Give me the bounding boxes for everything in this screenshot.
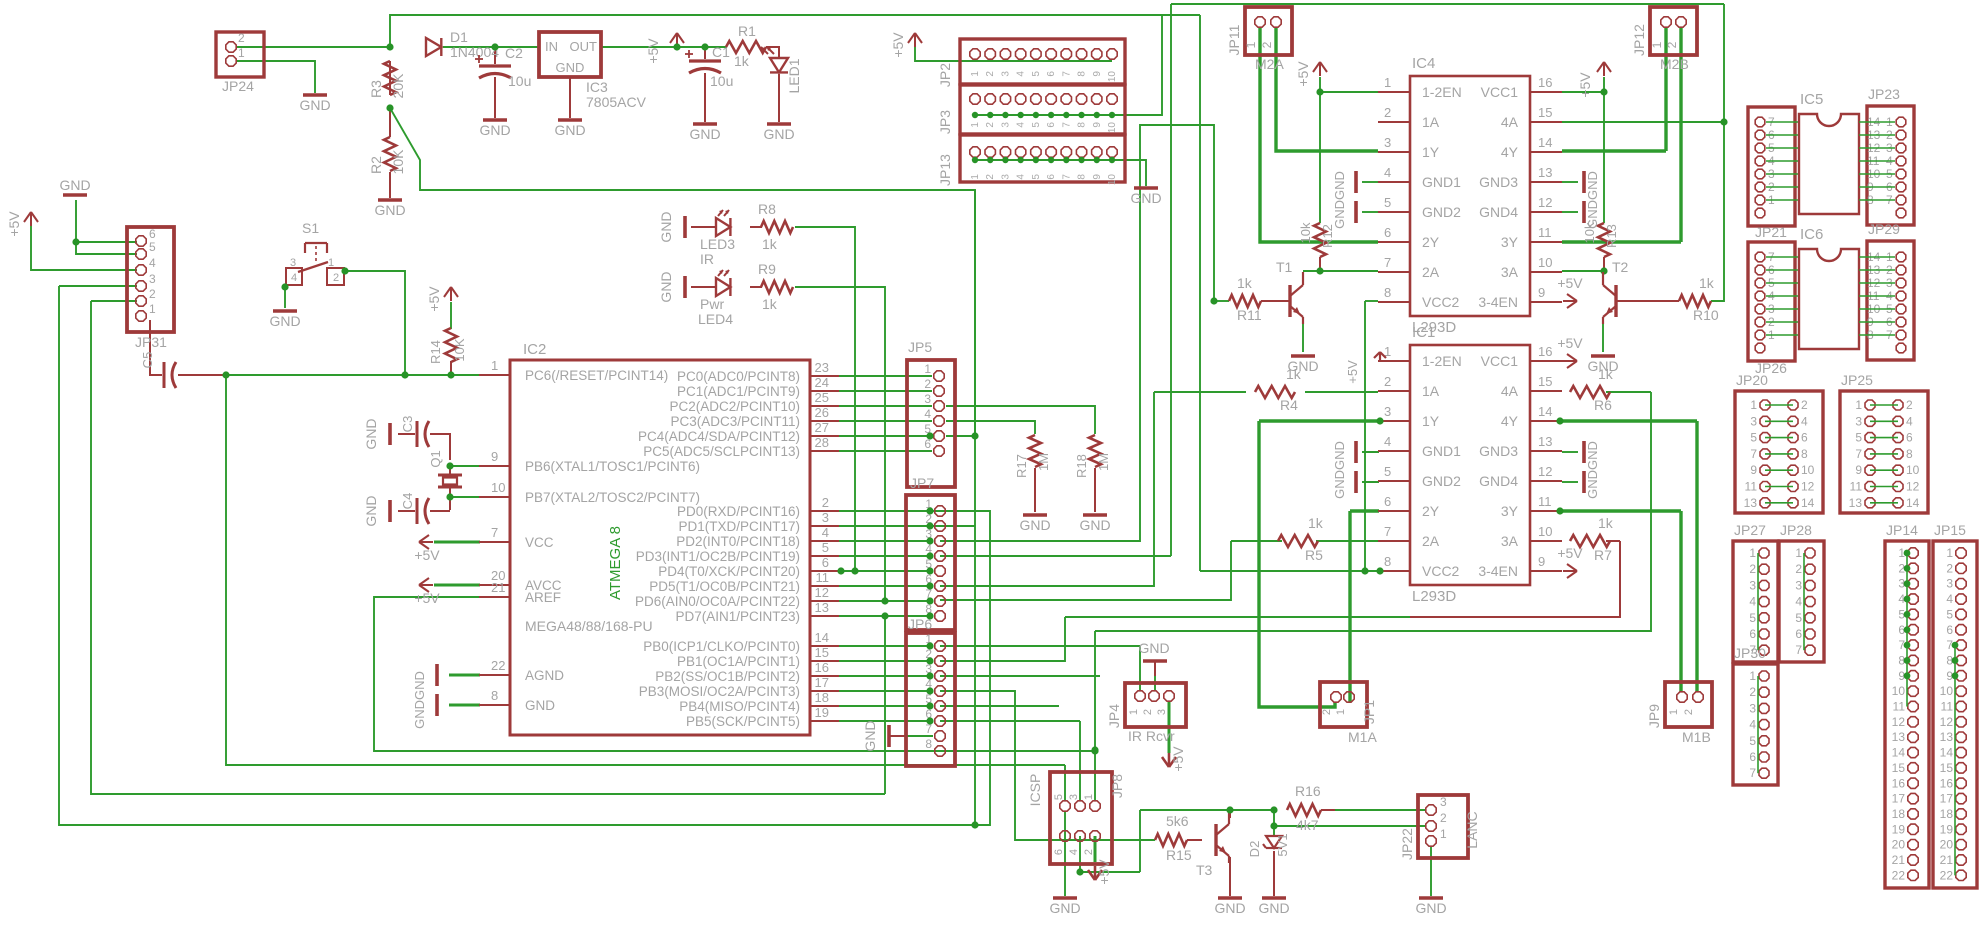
svg-text:27: 27 — [815, 420, 829, 435]
svg-text:GND: GND — [1130, 190, 1161, 206]
svg-text:6: 6 — [1384, 494, 1391, 509]
svg-text:LED4: LED4 — [698, 311, 733, 327]
svg-text:GNDGND: GNDGND — [1585, 171, 1600, 229]
svg-text:1: 1 — [1440, 827, 1447, 841]
svg-text:14: 14 — [1538, 404, 1552, 419]
svg-text:3: 3 — [924, 392, 931, 406]
svg-text:+5V: +5V — [414, 590, 440, 606]
svg-text:JP9: JP9 — [1646, 704, 1662, 728]
svg-text:R16: R16 — [1295, 783, 1321, 799]
svg-text:JP7: JP7 — [910, 475, 934, 491]
svg-text:GND: GND — [1214, 900, 1245, 916]
svg-text:3-4EN: 3-4EN — [1478, 294, 1518, 310]
svg-text:R8: R8 — [758, 201, 776, 217]
svg-text:1A: 1A — [1422, 383, 1440, 399]
svg-text:7: 7 — [1749, 766, 1756, 780]
svg-text:5: 5 — [1031, 71, 1042, 77]
svg-text:10: 10 — [1538, 255, 1552, 270]
svg-text:VCC1: VCC1 — [1481, 353, 1519, 369]
svg-text:4: 4 — [1749, 595, 1756, 609]
svg-text:R18: R18 — [1074, 454, 1089, 478]
svg-text:PB2(SS/OC1B/PCINT2): PB2(SS/OC1B/PCINT2) — [655, 669, 800, 684]
svg-text:11: 11 — [1745, 480, 1758, 494]
svg-text:JP29: JP29 — [1868, 221, 1900, 237]
svg-text:PD5(T1/OC0B/PCINT21): PD5(T1/OC0B/PCINT21) — [649, 579, 800, 594]
svg-text:JP11: JP11 — [1226, 24, 1242, 55]
svg-text:3: 3 — [1749, 701, 1756, 715]
svg-text:13: 13 — [1892, 730, 1906, 744]
svg-text:D2: D2 — [1247, 841, 1262, 858]
svg-text:T3: T3 — [1196, 862, 1213, 878]
svg-text:JP13: JP13 — [937, 154, 953, 186]
svg-text:3: 3 — [1750, 414, 1757, 428]
svg-text:3: 3 — [1795, 578, 1802, 592]
svg-text:+5V: +5V — [1345, 360, 1360, 384]
svg-text:+5V: +5V — [1170, 746, 1186, 772]
svg-text:10k: 10k — [1298, 222, 1313, 243]
svg-text:PC0(ADC0/PCINT8): PC0(ADC0/PCINT8) — [677, 369, 800, 384]
svg-text:GNDGND: GNDGND — [1332, 441, 1347, 499]
svg-text:LED1: LED1 — [786, 58, 802, 93]
svg-text:2: 2 — [1801, 398, 1808, 412]
svg-text:3Y: 3Y — [1501, 503, 1519, 519]
svg-text:R1: R1 — [738, 23, 756, 39]
svg-text:+5V: +5V — [426, 286, 442, 312]
svg-text:10: 10 — [1892, 684, 1906, 698]
svg-text:5: 5 — [1795, 611, 1802, 625]
svg-text:5: 5 — [1031, 122, 1042, 128]
svg-text:PC2(ADC2/PCINT10): PC2(ADC2/PCINT10) — [669, 399, 800, 414]
svg-text:1k: 1k — [1699, 275, 1715, 291]
svg-text:16: 16 — [1538, 75, 1552, 90]
svg-text:10u: 10u — [710, 73, 733, 89]
svg-text:GND: GND — [1079, 517, 1110, 533]
svg-text:8: 8 — [1077, 174, 1088, 180]
svg-text:JP24: JP24 — [222, 78, 254, 94]
svg-text:1: 1 — [970, 174, 981, 180]
svg-text:GND: GND — [374, 202, 405, 218]
svg-text:GND: GND — [689, 126, 720, 142]
svg-text:PD0(RXD/PCINT16): PD0(RXD/PCINT16) — [677, 504, 800, 519]
svg-text:M1B: M1B — [1682, 729, 1711, 745]
svg-text:+5V: +5V — [1557, 545, 1583, 561]
svg-text:2: 2 — [1749, 562, 1756, 576]
svg-text:R15: R15 — [1166, 847, 1192, 863]
svg-text:IC1: IC1 — [1412, 324, 1435, 341]
svg-text:15: 15 — [1892, 761, 1906, 775]
svg-text:1: 1 — [1750, 398, 1757, 412]
svg-text:2: 2 — [822, 495, 829, 510]
svg-text:R13: R13 — [1604, 224, 1619, 248]
svg-text:7: 7 — [491, 525, 498, 540]
svg-text:IC6: IC6 — [1800, 226, 1823, 243]
svg-text:14: 14 — [1892, 746, 1906, 760]
svg-text:2: 2 — [985, 174, 996, 180]
svg-text:23: 23 — [815, 360, 829, 375]
svg-text:15: 15 — [815, 645, 829, 660]
svg-text:PB4(MISO/PCINT4): PB4(MISO/PCINT4) — [679, 699, 800, 714]
svg-text:MEGA48/88/168-PU: MEGA48/88/168-PU — [525, 618, 653, 634]
svg-text:12: 12 — [1892, 715, 1906, 729]
svg-text:1M: 1M — [1036, 453, 1051, 471]
svg-text:R9: R9 — [758, 261, 776, 277]
svg-text:PD6(AIN0/OC0A/PCINT22): PD6(AIN0/OC0A/PCINT22) — [635, 594, 800, 609]
svg-text:3: 3 — [1068, 794, 1080, 800]
svg-text:7: 7 — [1061, 122, 1072, 128]
svg-text:2: 2 — [1142, 709, 1154, 715]
svg-text:IC3: IC3 — [586, 79, 608, 95]
svg-text:1: 1 — [1244, 41, 1258, 48]
svg-text:2: 2 — [924, 377, 931, 391]
svg-text:1: 1 — [1384, 75, 1391, 90]
svg-text:C2: C2 — [505, 45, 523, 61]
svg-text:4: 4 — [1016, 174, 1027, 180]
svg-text:PD2(INT0/PCINT18): PD2(INT0/PCINT18) — [676, 534, 800, 549]
svg-text:8: 8 — [1077, 122, 1088, 128]
svg-text:19: 19 — [1892, 822, 1906, 836]
svg-text:20: 20 — [1892, 838, 1906, 852]
svg-text:IR: IR — [700, 251, 714, 267]
svg-text:3: 3 — [1156, 709, 1168, 715]
svg-text:3: 3 — [1000, 174, 1011, 180]
svg-text:22: 22 — [491, 658, 505, 673]
svg-text:12: 12 — [1538, 464, 1552, 479]
svg-text:1k: 1k — [1308, 515, 1324, 531]
svg-text:4A: 4A — [1501, 114, 1519, 130]
svg-text:4: 4 — [1906, 414, 1913, 428]
svg-text:JP31: JP31 — [135, 334, 167, 350]
svg-text:3: 3 — [1440, 795, 1447, 809]
svg-text:16: 16 — [1940, 776, 1954, 790]
svg-text:GND1: GND1 — [1422, 174, 1461, 190]
svg-text:19: 19 — [815, 705, 829, 720]
svg-text:C5: C5 — [140, 352, 155, 369]
svg-text:21: 21 — [1940, 853, 1954, 867]
svg-text:3: 3 — [290, 257, 296, 269]
svg-text:1: 1 — [1946, 546, 1953, 560]
svg-text:10K: 10K — [390, 149, 406, 175]
svg-text:GND: GND — [299, 97, 330, 113]
svg-text:1M: 1M — [1096, 453, 1111, 471]
svg-text:GND: GND — [363, 418, 379, 449]
svg-text:1: 1 — [1795, 546, 1802, 560]
svg-text:4: 4 — [1016, 122, 1027, 128]
svg-text:M2A: M2A — [1255, 56, 1284, 72]
svg-text:9: 9 — [1092, 122, 1103, 128]
svg-text:1: 1 — [1749, 669, 1756, 683]
svg-text:PD3(INT1/OC2B/PCINT19): PD3(INT1/OC2B/PCINT19) — [636, 549, 800, 564]
svg-text:JP21: JP21 — [1755, 224, 1787, 240]
svg-text:17: 17 — [1892, 792, 1906, 806]
svg-text:5V1: 5V1 — [1275, 833, 1290, 856]
svg-text:4Y: 4Y — [1501, 413, 1519, 429]
svg-text:+5V: +5V — [1096, 859, 1112, 885]
svg-text:4: 4 — [1795, 595, 1802, 609]
svg-text:5: 5 — [1384, 195, 1391, 210]
svg-text:12: 12 — [815, 585, 829, 600]
svg-text:1: 1 — [1335, 709, 1347, 715]
svg-text:2: 2 — [1795, 562, 1802, 576]
svg-text:1: 1 — [1128, 709, 1140, 715]
svg-text:17: 17 — [1940, 792, 1954, 806]
svg-text:26: 26 — [815, 405, 829, 420]
svg-text:2Y: 2Y — [1422, 234, 1440, 250]
svg-text:PC1(ADC1/PCINT9): PC1(ADC1/PCINT9) — [677, 384, 800, 399]
svg-text:GND: GND — [1019, 517, 1050, 533]
svg-text:18: 18 — [1892, 807, 1906, 821]
svg-text:10: 10 — [1906, 463, 1920, 477]
svg-text:VCC: VCC — [525, 535, 554, 550]
svg-text:1: 1 — [924, 362, 931, 376]
svg-text:C4: C4 — [400, 493, 415, 510]
svg-text:8: 8 — [491, 688, 498, 703]
svg-text:T1: T1 — [1276, 259, 1293, 275]
svg-text:D1: D1 — [450, 29, 468, 45]
svg-text:PC6(/RESET/PCINT14): PC6(/RESET/PCINT14) — [525, 368, 668, 383]
svg-text:GND: GND — [1415, 900, 1446, 916]
svg-text:IC2: IC2 — [523, 341, 546, 358]
svg-text:AREF: AREF — [525, 590, 561, 605]
svg-text:1: 1 — [238, 46, 245, 60]
svg-text:8: 8 — [1906, 447, 1913, 461]
svg-text:+5V: +5V — [6, 211, 22, 237]
svg-text:9: 9 — [1092, 71, 1103, 77]
svg-text:8: 8 — [1077, 71, 1088, 77]
svg-text:10: 10 — [1107, 122, 1118, 134]
svg-text:2: 2 — [1321, 709, 1333, 715]
svg-text:1: 1 — [970, 122, 981, 128]
svg-text:10: 10 — [1801, 463, 1815, 477]
svg-text:7: 7 — [1795, 643, 1802, 657]
svg-text:1Y: 1Y — [1422, 144, 1440, 160]
svg-text:14: 14 — [815, 630, 829, 645]
svg-text:9: 9 — [1538, 554, 1545, 569]
svg-text:1A: 1A — [1422, 114, 1440, 130]
svg-text:2: 2 — [1946, 561, 1953, 575]
svg-text:VCC2: VCC2 — [1422, 563, 1460, 579]
svg-text:JP6: JP6 — [908, 616, 932, 632]
svg-text:GND: GND — [556, 60, 585, 75]
svg-text:6: 6 — [1046, 174, 1057, 180]
svg-text:5: 5 — [1855, 431, 1862, 445]
svg-text:GND2: GND2 — [1422, 204, 1461, 220]
svg-text:3: 3 — [149, 272, 156, 286]
svg-text:GND1: GND1 — [1422, 443, 1461, 459]
svg-text:JP2: JP2 — [937, 63, 953, 87]
svg-text:GND: GND — [1138, 640, 1169, 656]
svg-text:JP23: JP23 — [1868, 86, 1900, 102]
svg-text:PC4(ADC4/SDA/PCINT12): PC4(ADC4/SDA/PCINT12) — [638, 429, 800, 444]
svg-text:GNDGND: GNDGND — [1332, 171, 1347, 229]
svg-text:C3: C3 — [400, 416, 415, 433]
svg-text:8: 8 — [1384, 554, 1391, 569]
svg-text:GND: GND — [59, 177, 90, 193]
svg-text:10: 10 — [1107, 71, 1118, 83]
svg-text:Pwr: Pwr — [700, 296, 724, 312]
svg-text:7: 7 — [1750, 447, 1757, 461]
svg-text:2: 2 — [1665, 41, 1679, 48]
svg-text:2: 2 — [1083, 849, 1095, 855]
svg-text:GND: GND — [763, 126, 794, 142]
svg-text:9: 9 — [1855, 463, 1862, 477]
svg-text:13: 13 — [1849, 496, 1863, 510]
svg-text:15: 15 — [1538, 374, 1552, 389]
svg-text:Q1: Q1 — [428, 450, 443, 467]
svg-text:21: 21 — [1892, 853, 1906, 867]
svg-text:22: 22 — [1940, 868, 1954, 882]
svg-text:10u: 10u — [508, 73, 531, 89]
svg-text:ATMEGA 8: ATMEGA 8 — [607, 526, 624, 600]
svg-text:4: 4 — [1801, 414, 1808, 428]
svg-text:GND3: GND3 — [1479, 443, 1518, 459]
svg-text:2: 2 — [1906, 398, 1913, 412]
svg-text:13: 13 — [1538, 165, 1552, 180]
svg-text:3: 3 — [1000, 71, 1011, 77]
svg-text:14: 14 — [1906, 496, 1920, 510]
svg-text:6: 6 — [1906, 431, 1913, 445]
svg-text:6: 6 — [1046, 71, 1057, 77]
svg-text:R5: R5 — [1305, 547, 1323, 563]
svg-text:17: 17 — [815, 675, 829, 690]
svg-text:11: 11 — [816, 570, 830, 585]
svg-text:R4: R4 — [1280, 397, 1298, 413]
svg-text:5: 5 — [1749, 734, 1756, 748]
svg-text:+5V: +5V — [414, 547, 440, 563]
svg-text:6: 6 — [1749, 627, 1756, 641]
svg-text:4: 4 — [1749, 718, 1756, 732]
svg-text:T2: T2 — [1612, 259, 1629, 275]
svg-text:2Y: 2Y — [1422, 503, 1440, 519]
svg-text:4A: 4A — [1501, 383, 1519, 399]
svg-text:8: 8 — [1384, 285, 1391, 300]
svg-text:1k: 1k — [734, 53, 750, 69]
svg-text:S1: S1 — [302, 220, 319, 236]
svg-text:L293D: L293D — [1412, 588, 1456, 605]
svg-text:7: 7 — [1384, 255, 1391, 270]
svg-text:PB1(OC1A/PCINT1): PB1(OC1A/PCINT1) — [677, 654, 800, 669]
svg-text:5: 5 — [1750, 431, 1757, 445]
svg-text:10: 10 — [1940, 684, 1954, 698]
svg-text:16: 16 — [815, 660, 829, 675]
svg-text:3: 3 — [1855, 414, 1862, 428]
svg-text:14: 14 — [1940, 746, 1954, 760]
svg-text:2A: 2A — [1422, 264, 1440, 280]
svg-text:4: 4 — [1016, 71, 1027, 77]
svg-text:3: 3 — [1384, 404, 1391, 419]
svg-text:2: 2 — [985, 71, 996, 77]
svg-text:LED3: LED3 — [700, 236, 735, 252]
svg-text:4: 4 — [1384, 165, 1391, 180]
svg-text:5: 5 — [1053, 794, 1065, 800]
svg-text:12: 12 — [1801, 480, 1815, 494]
svg-text:3: 3 — [822, 510, 829, 525]
svg-text:1: 1 — [328, 257, 334, 269]
svg-text:GND: GND — [479, 122, 510, 138]
svg-text:13: 13 — [1940, 730, 1954, 744]
svg-text:6: 6 — [1384, 225, 1391, 240]
svg-text:3-4EN: 3-4EN — [1478, 563, 1518, 579]
svg-text:1k: 1k — [1598, 366, 1614, 382]
svg-text:JP4: JP4 — [1106, 704, 1122, 728]
svg-text:5k6: 5k6 — [1166, 813, 1189, 829]
svg-text:21: 21 — [491, 580, 505, 595]
svg-text:PC3(ADC3/PCINT11): PC3(ADC3/PCINT11) — [670, 414, 800, 429]
svg-text:4: 4 — [1946, 592, 1953, 606]
svg-text:4Y: 4Y — [1501, 144, 1519, 160]
svg-text:7: 7 — [1384, 524, 1391, 539]
svg-text:10: 10 — [1107, 174, 1118, 186]
svg-text:R14: R14 — [428, 340, 443, 364]
svg-text:2: 2 — [333, 272, 339, 284]
svg-text:11: 11 — [1538, 494, 1552, 509]
svg-text:GND: GND — [1258, 900, 1289, 916]
svg-text:10: 10 — [491, 480, 505, 495]
svg-text:M2B: M2B — [1660, 56, 1689, 72]
svg-text:R6: R6 — [1594, 397, 1612, 413]
svg-text:R11: R11 — [1237, 307, 1262, 323]
svg-text:20: 20 — [1940, 838, 1954, 852]
svg-text:PB5(SCK/PCINT5): PB5(SCK/PCINT5) — [686, 714, 800, 729]
svg-text:11: 11 — [1893, 700, 1906, 714]
svg-text:15: 15 — [1538, 105, 1552, 120]
svg-text:+5V: +5V — [890, 32, 906, 58]
svg-text:20K: 20K — [390, 73, 406, 99]
svg-text:10: 10 — [1538, 524, 1552, 539]
svg-text:6: 6 — [1946, 623, 1953, 637]
svg-text:3A: 3A — [1501, 533, 1519, 549]
svg-text:6: 6 — [1795, 627, 1802, 641]
svg-text:4: 4 — [822, 525, 829, 540]
svg-text:JP25: JP25 — [1841, 372, 1873, 388]
svg-text:28: 28 — [815, 435, 829, 450]
svg-text:1k: 1k — [1598, 515, 1614, 531]
svg-text:6: 6 — [1801, 431, 1808, 445]
svg-text:4k7: 4k7 — [1296, 817, 1319, 833]
svg-text:2: 2 — [149, 287, 156, 301]
svg-text:5: 5 — [1384, 464, 1391, 479]
svg-text:JP20: JP20 — [1736, 372, 1768, 388]
svg-text:4: 4 — [924, 407, 931, 421]
svg-text:12: 12 — [1538, 195, 1552, 210]
svg-text:5: 5 — [1946, 607, 1953, 621]
svg-text:JP5: JP5 — [908, 339, 932, 355]
svg-text:ICSP: ICSP — [1027, 774, 1043, 807]
svg-text:GND3: GND3 — [1479, 174, 1518, 190]
svg-text:IN: IN — [545, 39, 558, 54]
svg-text:6: 6 — [1053, 849, 1065, 855]
svg-text:2: 2 — [1749, 685, 1756, 699]
svg-text:1: 1 — [149, 302, 156, 316]
svg-text:2: 2 — [1260, 41, 1274, 48]
svg-text:1: 1 — [1650, 41, 1664, 48]
svg-text:VCC2: VCC2 — [1422, 294, 1460, 310]
svg-text:LANC: LANC — [1464, 811, 1480, 848]
svg-text:3: 3 — [1749, 578, 1756, 592]
svg-text:JP27: JP27 — [1734, 522, 1766, 538]
svg-text:9: 9 — [491, 449, 498, 464]
svg-text:R3: R3 — [368, 80, 384, 98]
svg-text:2: 2 — [238, 31, 245, 45]
svg-text:GND: GND — [1049, 900, 1080, 916]
svg-text:11: 11 — [1538, 225, 1552, 240]
svg-text:5: 5 — [149, 240, 156, 254]
svg-text:3: 3 — [1384, 135, 1391, 150]
svg-text:+5V: +5V — [645, 38, 661, 64]
svg-text:7: 7 — [1855, 447, 1862, 461]
svg-text:1k: 1k — [762, 236, 778, 252]
svg-text:+5V: +5V — [1295, 61, 1311, 87]
svg-text:25: 25 — [815, 390, 829, 405]
